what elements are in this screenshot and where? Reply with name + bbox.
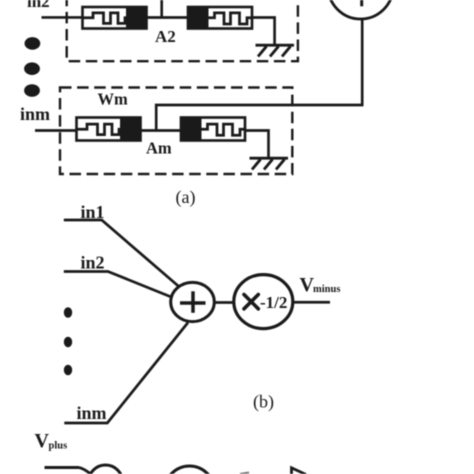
- wire bend into bottom circle: [79, 468, 91, 474]
- wire in2 input: [42, 16, 84, 19]
- wire M4 to ground: [245, 131, 269, 159]
- svg-text:(b): (b): [253, 391, 274, 412]
- wire bottom row input (cut off): [45, 466, 80, 469]
- ground (Wm row): [250, 158, 289, 169]
- plus sign bottom tip (top right): [360, 0, 363, 6]
- wire between M1 and M2: [147, 16, 189, 19]
- wire multiplier output: [293, 301, 330, 304]
- svg-text:Am: Am: [146, 139, 172, 158]
- svg-text:A2: A2: [155, 27, 176, 46]
- svg-text:plus: plus: [49, 441, 68, 452]
- bottom circle 1 (cut off): [89, 465, 123, 474]
- wire inm input: [35, 129, 77, 132]
- dashed box Wm row: [60, 88, 292, 175]
- bottom circle 2 (cut off): [165, 466, 215, 474]
- svg-text:in2: in2: [81, 253, 105, 273]
- ellipsis dots column (a): [24, 37, 40, 97]
- dashed box A2 row: [67, 0, 298, 61]
- svg-text:inm: inm: [20, 104, 50, 124]
- wire M2 to ground: [252, 18, 275, 46]
- svg-text:in2: in2: [27, 0, 50, 11]
- wire in1 to summer: [64, 220, 180, 288]
- wire between M3 and M4: [141, 129, 182, 132]
- wire junction A2 vertical to top: [160, 0, 163, 19]
- multiply sign: [244, 295, 258, 309]
- memristor M1: [83, 6, 148, 30]
- multiplier U2: [234, 275, 293, 329]
- plus sign in summer: [180, 291, 206, 313]
- svg-text:(a): (a): [176, 187, 196, 208]
- wire junction Am to sum circle: [156, 19, 362, 132]
- svg-text:Wm: Wm: [98, 90, 129, 109]
- wire inm to summer: [64, 323, 188, 424]
- svg-text:V: V: [35, 430, 50, 452]
- wire summer to multiplier: [214, 301, 234, 304]
- memristor M4: [180, 117, 245, 142]
- svg-text:inm: inm: [77, 403, 107, 423]
- amplifier triangle (cut off): [292, 468, 307, 474]
- svg-text:-1/2: -1/2: [260, 293, 287, 312]
- summing junction U1: [171, 282, 215, 321]
- svg-text:minus: minus: [313, 284, 340, 295]
- summing node circle (top right, cut off): [328, 0, 393, 19]
- ground (A2 row): [256, 45, 295, 56]
- memristor M2: [187, 6, 252, 30]
- bottom small mark: [240, 473, 249, 474]
- wire in2 to summer: [64, 272, 173, 298]
- ellipsis dots column (b): [64, 307, 72, 375]
- memristor M3: [77, 117, 142, 142]
